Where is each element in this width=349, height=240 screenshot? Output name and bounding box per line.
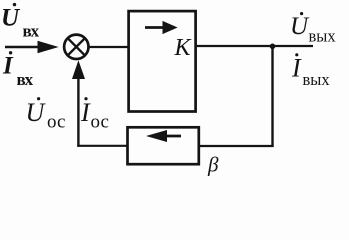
input arrowhead bbox=[38, 41, 59, 53]
node output junction dot bbox=[270, 44, 276, 50]
arrow inside beta head bbox=[146, 130, 167, 142]
wire feedback left vertical bbox=[77, 78, 79, 147]
dot above U output bbox=[300, 12, 303, 15]
svg-text:ос: ос bbox=[91, 111, 109, 132]
svg-text:K: K bbox=[174, 35, 193, 61]
svg-text:вх: вх bbox=[17, 70, 34, 89]
summing junction cross line 1 bbox=[68, 38, 85, 55]
wire feedback bottom right bbox=[199, 145, 274, 147]
svg-text:I: I bbox=[2, 53, 14, 80]
wire feedback right vertical bbox=[271, 46, 273, 146]
wire input arrow line bbox=[5, 46, 44, 48]
arrow inside K head bbox=[163, 21, 178, 34]
svg-text:U: U bbox=[290, 13, 310, 40]
svg-text:ос: ос bbox=[47, 111, 65, 132]
svg-text:β: β bbox=[207, 153, 219, 177]
svg-text:I: I bbox=[80, 98, 91, 127]
dot above U feedback bbox=[37, 97, 40, 100]
svg-text:вх: вх bbox=[23, 22, 40, 41]
dot above I input bbox=[9, 51, 12, 54]
arrow inside K line bbox=[145, 26, 167, 29]
wire K output to right bbox=[196, 45, 313, 47]
dot above I feedback bbox=[84, 97, 87, 100]
arrow inside beta line bbox=[160, 135, 181, 138]
block K rectangle bbox=[129, 11, 196, 111]
summing junction circle bbox=[64, 35, 88, 59]
svg-text:вых: вых bbox=[309, 27, 337, 46]
block beta rectangle bbox=[128, 127, 199, 164]
svg-text:U: U bbox=[1, 5, 21, 32]
arrowhead into summing junction bottom bbox=[72, 60, 85, 79]
dot above U input bbox=[13, 3, 16, 6]
svg-text:I: I bbox=[291, 54, 302, 83]
wire feedback bottom left bbox=[77, 145, 128, 147]
svg-text:U: U bbox=[26, 98, 47, 127]
svg-text:вых: вых bbox=[303, 70, 331, 89]
dot above I output bbox=[295, 53, 298, 56]
wire summing junction to block K bbox=[90, 46, 130, 48]
summing junction cross line 2 bbox=[68, 38, 85, 55]
